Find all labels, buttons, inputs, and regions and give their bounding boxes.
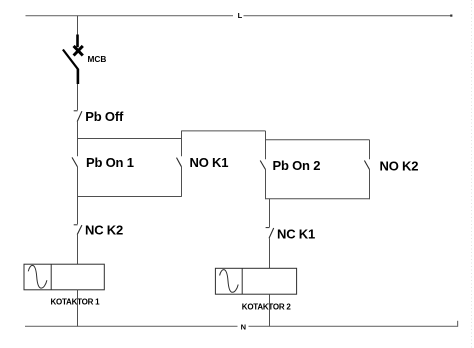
- wire: NO K2 branch top vertical: [369, 140, 371, 160]
- svg-text:Pb On 1: Pb On 1: [86, 155, 134, 170]
- svg-text:KOTAKTOR 2: KOTAKTOR 2: [242, 303, 292, 312]
- contactor coil K1 (KOTAKTOR 1): [24, 264, 104, 290]
- svg-text:NC K1: NC K1: [277, 227, 315, 242]
- pushbutton Pb On 2 (NO): [260, 161, 265, 170]
- svg-text:NC K2: NC K2: [85, 223, 123, 238]
- wire: coil K2 to N rail: [269, 294, 271, 326]
- svg-text:Pb Off: Pb Off: [85, 109, 124, 124]
- wire: NO K2 branch bottom vertical: [369, 170, 371, 200]
- wire A: node below Pb Off to NO K1 branch: [77, 138, 182, 140]
- wire C: Pb On 2 node to NO K2: [266, 139, 370, 141]
- wire: N rail left segment: [25, 325, 238, 327]
- svg-text:Pb On 2: Pb On 2: [273, 158, 321, 173]
- wire: NO K1 branch top vertical: [181, 131, 183, 156]
- wire: Pb On 2 branch bottom vertical: [265, 170, 267, 200]
- wire: MCB to Pb Off: [77, 84, 79, 110]
- wire: Pb On 2 branch top vertical: [265, 131, 267, 159]
- breaker MCB: [63, 35, 83, 85]
- page border (right, faint dotted): [471, 0, 473, 348]
- contact NC K1: [266, 228, 274, 239]
- svg-text:NO K2: NO K2: [380, 158, 419, 173]
- contact NO K2: [364, 161, 369, 170]
- pushbutton Pb On 1 (NO): [72, 157, 78, 167]
- wire: node E to NC K1: [269, 199, 271, 227]
- svg-text:NO K1: NO K1: [190, 155, 229, 170]
- svg-text:MCB: MCB: [88, 54, 107, 64]
- contact NO K1: [177, 158, 182, 167]
- wire: L rail left segment: [26, 15, 234, 17]
- wire B: NO K1 top to Pb On 2 branch: [181, 130, 265, 132]
- wire: N rail right segment: [249, 325, 459, 327]
- wire: NC K1 to contactor coil K2: [269, 238, 271, 268]
- wire: NC K2 to contactor coil K1: [77, 235, 79, 265]
- svg-text:L: L: [238, 11, 243, 20]
- wire: L rail right segment: [244, 15, 451, 17]
- wire: L rail to MCB: [77, 16, 79, 35]
- wire E: Pb On 2 bottom to NO K2 bottom: [266, 198, 370, 200]
- wire: N rail right end hook: [457, 321, 459, 327]
- wire: Pb On 1 to NC K2 (through node D): [77, 167, 79, 224]
- wire D: bottom of NO K1 branch back to main: [77, 196, 182, 198]
- node: L rail right endpoint dot: [450, 15, 452, 17]
- contact NC K2: [74, 225, 82, 235]
- svg-text:N: N: [241, 322, 246, 331]
- wire: coil K1 to N rail: [77, 290, 79, 327]
- wire: Pb Off to Pb On 1 (through node A): [77, 122, 79, 157]
- wire: NO K1 branch bottom vertical: [181, 167, 183, 197]
- svg-text:KOTAKTOR 1: KOTAKTOR 1: [51, 298, 101, 307]
- pushbutton Pb Off (NC): [74, 111, 82, 122]
- contactor coil K2 (KOTAKTOR 2): [215, 268, 296, 294]
